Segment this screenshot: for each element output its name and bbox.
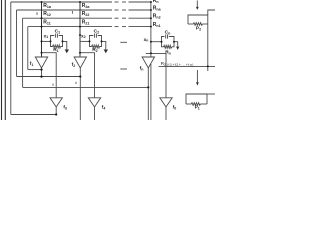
wire bus row 3 [23,17,112,19]
arrow P1 wiper [196,70,198,83]
wire column 1 tap vertical [41,2,43,57]
svg-text:R11: R11 [43,19,50,25]
tick mark lower col1 [52,84,54,86]
svg-text:Rn2: Rn2 [153,14,161,20]
wire sum line R sigma [159,65,216,67]
wire amp fn output [147,68,149,120]
svg-text:x1: x1 [44,33,49,39]
wire dash continuation row 2 [115,9,119,11]
wire bus row 1 [11,1,112,3]
svg-text:f3: f3 [63,105,67,111]
node row1 col2 [79,1,81,3]
node jog col1 [41,52,43,54]
wire P1 top edge out to right edge [207,93,215,95]
wire stub xn to block n [151,41,162,43]
capacitor Cn block n loop [162,37,165,47]
svg-text:Cn: Cn [165,30,171,36]
node jog coln [150,52,152,54]
node row4 col2 [79,26,81,28]
node row3 col1 [41,17,43,19]
wire dash continuation row 3 [115,17,119,19]
wire row1 wrap vertical [10,2,12,115]
wire stub x2 to block 2 [80,40,90,42]
node row3 coln [150,17,152,19]
svg-text:R21: R21 [82,19,90,25]
wire left border bus 2 [4,0,6,120]
wire feedback line row4 to f1 [28,69,42,71]
node block2 left [89,40,91,42]
op-amp A lower [50,98,62,107]
svg-text:fn: fn [140,65,144,71]
op-amp C lower [160,98,172,107]
wire jog column n to lower amp C [146,53,166,97]
tick mark col2 rows [71,11,73,14]
svg-text:R2a: R2a [82,3,91,9]
svg-text:P2: P2 [196,26,201,32]
node blockn left [161,41,163,43]
node P2 sum junction [207,65,209,67]
svg-text:Rn: Rn [153,0,159,4]
potentiometer P2 box [188,15,208,24]
svg-text:x2: x2 [81,33,86,39]
wire P2 bottom down to sum line [207,24,209,71]
node row2 coln [150,9,152,11]
wire dash continuation row 1 [115,1,119,3]
op-amp fn [142,57,154,68]
arrow P2 wiper [196,1,198,8]
svg-text:R12: R12 [43,11,51,17]
svg-text:Rna: Rna [153,5,162,11]
tick mark lower col2 [75,82,77,84]
wire amp A output [55,107,57,115]
wire feedback line row2 y76 [17,76,81,78]
wire block 2 output [102,41,106,49]
node block1 left [50,40,52,42]
arrow block n down [176,47,179,50]
wire dash continuation row 4 [115,26,119,28]
resistor R1 zigzag block 1 [53,45,61,48]
arrow block 1 down [65,50,69,54]
wire feedback line row3 y87 [23,86,149,88]
op-amp B lower [88,98,100,107]
wire column 2 tap vertical [79,2,81,57]
tick mark col1 rows [36,12,38,15]
wire block n output [174,42,178,47]
node f1 out on feedback [40,69,42,71]
node row4 coln [150,26,152,28]
resistor R2 zigzag block 2 [92,45,100,48]
svg-text:Rn: Rn [165,49,171,55]
wire left border bus 1 [1,0,3,120]
wire dash continuation amp level [120,68,127,70]
wire amp B output [94,107,96,120]
node f1 out line y76 [40,76,42,78]
svg-text:f0: f0 [173,104,177,110]
wire bus row 2 [17,9,113,11]
node jog col2 [79,52,81,54]
wire column n tap vertical [150,2,152,57]
wire dash continuation mid stub level [120,41,127,43]
svg-text:C1: C1 [55,28,60,34]
capacitor C1 block 1 loop [51,36,55,47]
wire column n tap vertical lower part [150,64,152,120]
node x2 on column 2 [79,34,81,36]
capacitor C2 block 2 loop [90,36,94,47]
node block2 right [101,40,103,42]
svg-text:xn: xn [144,37,149,43]
wire row3 wrap vertical [22,18,24,87]
svg-text:P1: P1 [195,105,200,111]
node block1 right [62,40,64,42]
node amp A out line y114 [55,113,57,115]
wire jog column 2 to lower amp B [80,53,95,98]
node fn out line y87 [147,86,149,88]
op-amp f1 [35,57,47,68]
resistor zigzag in P1 [191,103,200,106]
resistor zigzag in P2 [193,23,202,26]
node stub 1 [41,40,43,42]
node blockn right [173,41,175,43]
op-amp f2 [74,57,86,68]
node row1 col1 [41,1,43,3]
wire jog column 1 to lower amp A [42,53,57,98]
svg-text:R1a: R1a [43,3,52,9]
wire amp C output [165,107,167,120]
potentiometer P1 box [186,94,207,104]
svg-text:f1: f1 [30,61,34,67]
node f2 out line y76 [79,75,81,77]
resistor Rn zigzag block n [164,45,173,48]
svg-text:f4: f4 [102,104,106,110]
wire stub x1 to block 1 [42,40,51,42]
svg-text:R22: R22 [82,11,90,17]
svg-text:Rn1: Rn1 [153,22,161,28]
wire amp f1 output [41,68,43,77]
wire bus row 4 [28,26,112,28]
wire row4 wrap vertical [27,27,29,70]
svg-text:f2: f2 [72,62,76,68]
wire bottom feedback line row1 y114 [11,114,56,116]
wire amp f2 output [79,68,81,120]
arrow block 2 down [104,50,108,54]
wire row2 wrap vertical [16,10,18,76]
node row1 coln [150,1,152,3]
node row4 col1 [41,26,43,28]
node stub n [150,41,152,43]
wire P2 feed from right edge [208,10,215,15]
svg-text:C2: C2 [94,28,99,34]
wire block 1 output [63,41,67,49]
